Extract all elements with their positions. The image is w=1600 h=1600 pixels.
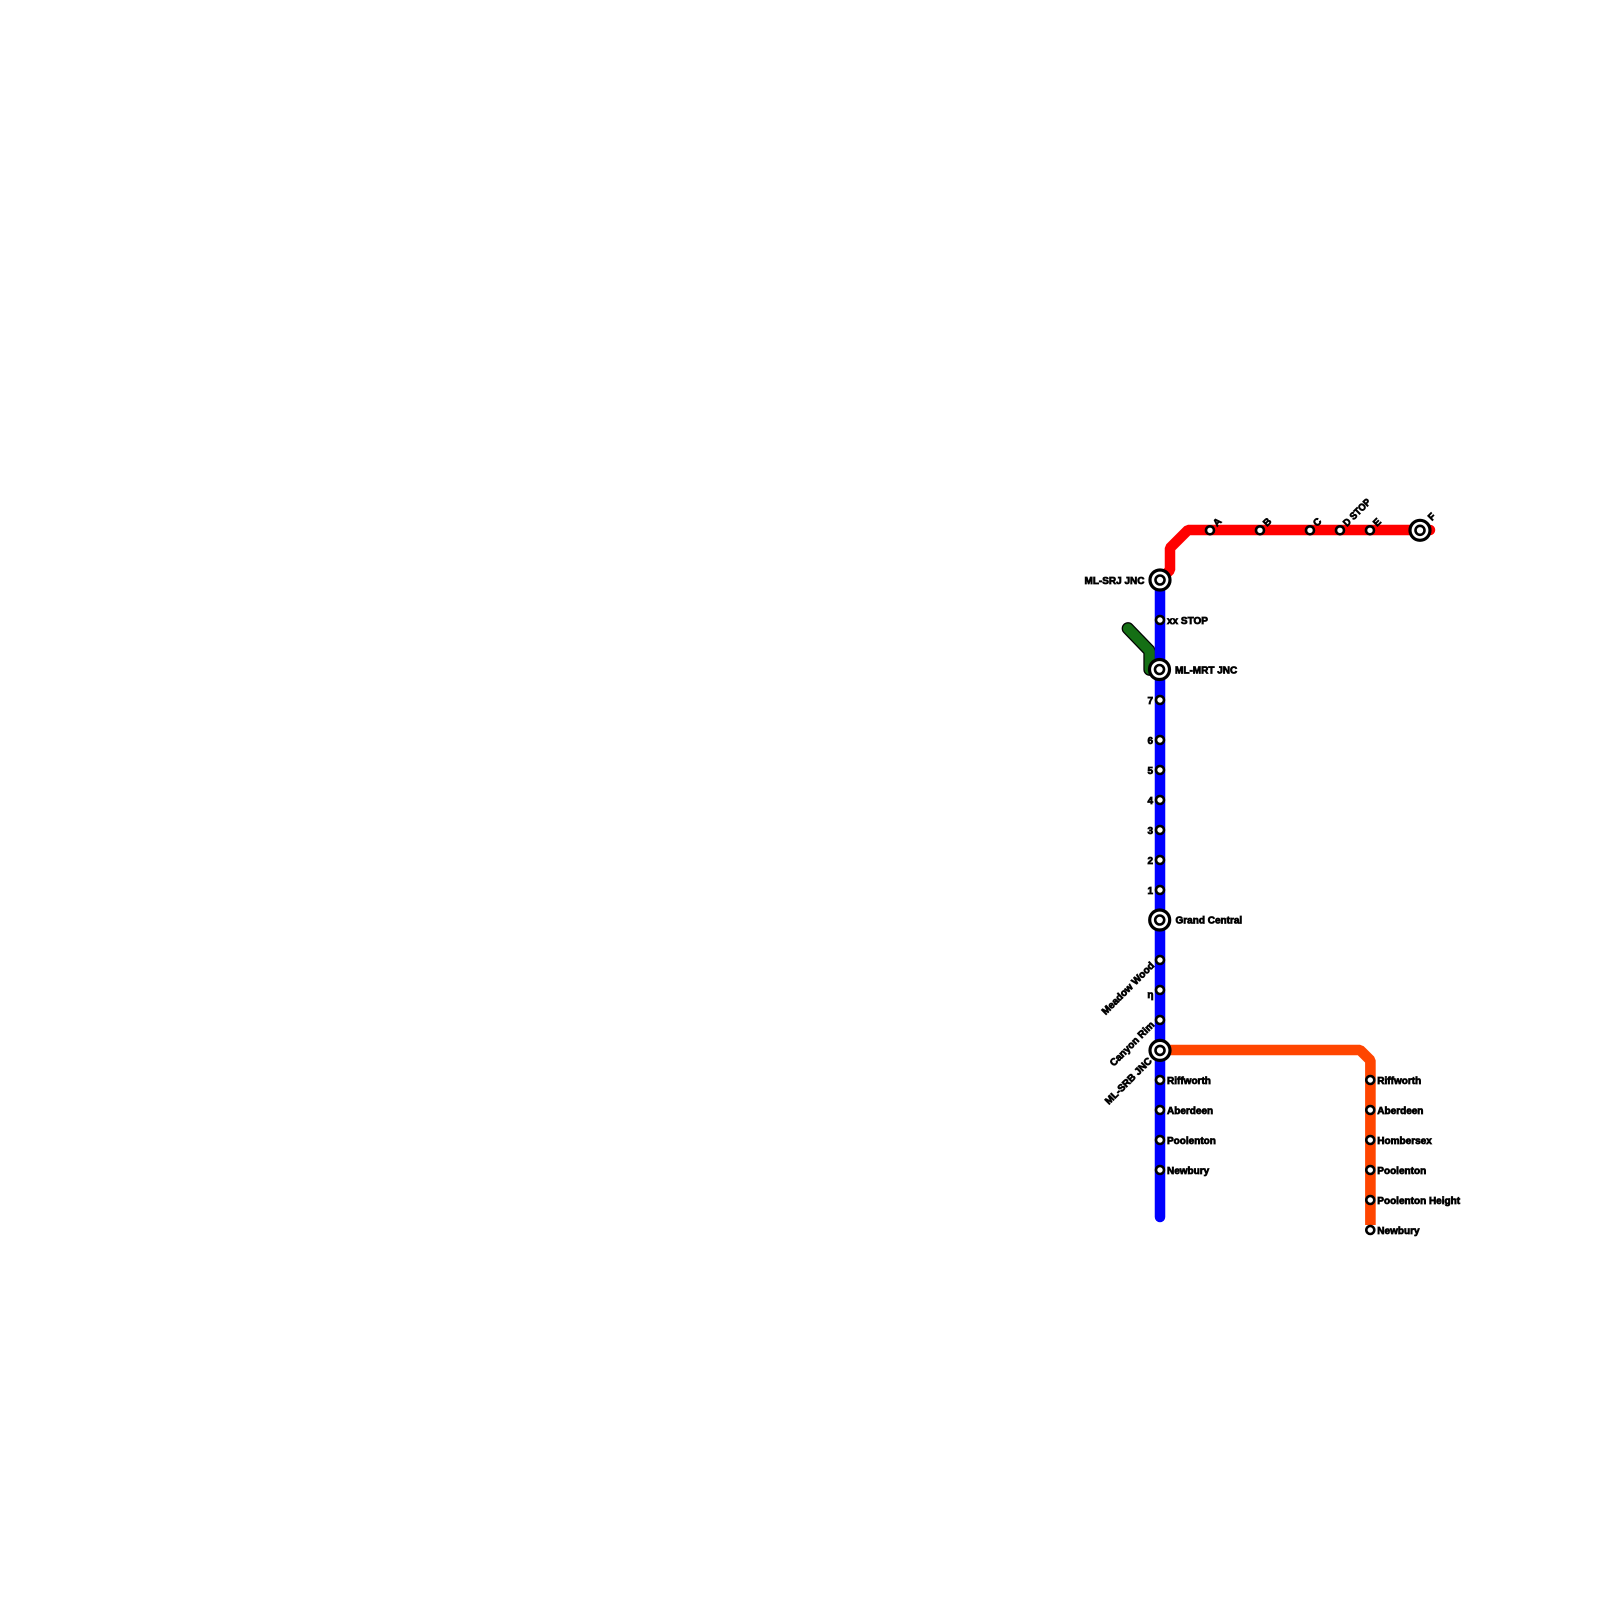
svg-text:1: 1 <box>1147 886 1153 897</box>
svg-text:Grand Central: Grand Central <box>1176 916 1243 927</box>
svg-text:Newbury: Newbury <box>1167 1166 1210 1177</box>
svg-text:Aberdeen: Aberdeen <box>1377 1106 1423 1117</box>
svg-text:Aberdeen: Aberdeen <box>1167 1106 1213 1117</box>
svg-text:Poolenton: Poolenton <box>1377 1166 1426 1177</box>
svg-text:5: 5 <box>1147 766 1153 777</box>
svg-text:7: 7 <box>1147 696 1153 707</box>
svg-text:xx STOP: xx STOP <box>1167 616 1208 627</box>
svg-text:Riffworth: Riffworth <box>1377 1076 1421 1087</box>
svg-text:2: 2 <box>1147 856 1153 867</box>
svg-text:Hombersex: Hombersex <box>1377 1136 1432 1147</box>
svg-text:4: 4 <box>1147 796 1153 807</box>
svg-text:3: 3 <box>1147 826 1153 837</box>
svg-text:Riffworth: Riffworth <box>1167 1076 1211 1087</box>
svg-text:η: η <box>1147 990 1153 1001</box>
svg-text:ML-MRT JNC: ML-MRT JNC <box>1175 665 1237 676</box>
svg-text:6: 6 <box>1147 736 1153 747</box>
svg-text:Newbury: Newbury <box>1377 1226 1420 1237</box>
svg-text:Poolenton: Poolenton <box>1167 1136 1216 1147</box>
svg-text:Poolenton Height: Poolenton Height <box>1377 1196 1460 1207</box>
svg-text:ML-SRJ JNC: ML-SRJ JNC <box>1084 576 1144 587</box>
